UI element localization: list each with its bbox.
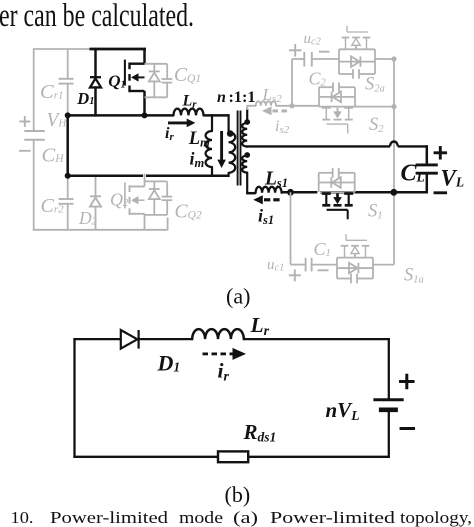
label nV_L (b)	[326, 398, 360, 423]
label C_r2	[41, 195, 65, 217]
transformer primary lead bottom	[228, 173, 230, 177]
wire right rail to C_L	[426, 145, 429, 165]
label C_1	[314, 239, 331, 259]
arrow i_s1 dashed	[253, 195, 279, 204]
wire D1 to L_r (b)	[137, 338, 192, 340]
label S_2	[369, 115, 384, 135]
snubber C_Q1 network	[145, 64, 173, 98]
label i_s1	[258, 206, 274, 228]
wire row2 from transformer	[246, 192, 256, 195]
svg-text:mode: mode	[179, 508, 223, 527]
label S_1a	[404, 266, 424, 286]
arrow i_m	[217, 131, 226, 168]
capacitor C_r1 lead top	[67, 49, 69, 79]
switch S1a mosfet	[341, 234, 370, 258]
label R_ds1 (b)	[243, 420, 277, 445]
label S_2a	[365, 75, 385, 95]
diode D1 cathode lead	[94, 48, 97, 77]
svg-text::1:1: :1:1	[229, 89, 256, 106]
wire bottom gray rail	[33, 229, 168, 231]
battery nV_L short plate	[379, 407, 398, 412]
figure caption line	[11, 508, 473, 527]
wire S1a to right rail	[373, 264, 394, 266]
capacitor C_r1 lead bottom	[67, 84, 69, 114]
V_H minus sign	[19, 150, 31, 152]
wire bottom left segment (b)	[73, 456, 218, 458]
inductor L_s2 connector	[247, 106, 256, 110]
wire bottom black (return to transformer)	[67, 175, 230, 178]
label i_r (a)	[165, 125, 174, 143]
capacitor u_c1 wire left	[291, 264, 306, 266]
transistor Q1	[125, 60, 145, 93]
label i_m	[190, 149, 205, 171]
switch S2a mosfet	[342, 26, 371, 50]
wire node row y115 (D1/Q1 to L_r)	[67, 114, 174, 117]
capacitor C_r2 lead top	[67, 177, 69, 199]
wire row2 to right	[282, 191, 427, 194]
switch S1a block	[337, 258, 373, 284]
switch S2a block	[339, 49, 375, 79]
u_c1 minus sign	[318, 269, 329, 271]
u_c2 minus sign	[319, 51, 330, 53]
label i_s2	[275, 118, 290, 136]
wire rail upturn to C_Q2 box corner	[167, 217, 169, 230]
node dot S2a right	[391, 56, 396, 61]
inductor L_s2	[256, 101, 276, 106]
diode D1 anode lead	[94, 86, 97, 116]
source V_H / capacitor C_H plates	[24, 131, 45, 140]
caption (b)	[225, 482, 251, 507]
wire L_r to corner (b)	[244, 338, 390, 340]
transformer secondary lead bottom	[246, 173, 248, 194]
label C_L	[401, 161, 425, 187]
capacitor u_c2 plates	[304, 52, 312, 67]
transformer primary polarity dot	[227, 130, 234, 137]
label C_Q1	[174, 65, 201, 86]
node dot row2 right rail	[390, 189, 397, 196]
transformer primary lead	[228, 114, 230, 132]
capacitor C_L	[416, 165, 438, 173]
switch S2 mosfet	[322, 108, 353, 134]
node junction dot Q1 source	[142, 112, 148, 118]
transistor Q2 source lead	[144, 214, 146, 230]
node dot L_s2 branch	[289, 103, 294, 108]
wire right rail lower (b)	[388, 410, 390, 458]
diode D1	[90, 77, 101, 87]
inductor L_r	[174, 109, 204, 116]
label i_r (b)	[218, 359, 230, 385]
wire left rail lower	[33, 140, 35, 230]
capacitor C_r2 lead bottom	[67, 204, 69, 230]
transistor Q1 source lead	[143, 91, 146, 115]
label C_r1	[40, 81, 63, 103]
switch S1 snubber box gray	[319, 168, 355, 192]
svg-text:n: n	[217, 89, 226, 106]
diode D2	[90, 196, 101, 206]
battery plus sign (b)	[399, 374, 415, 390]
wire L_r to transformer	[204, 114, 230, 117]
wire u_c1 branch riser	[290, 192, 292, 264]
transformer secondary s1 polarity dot	[244, 152, 250, 158]
svg-text:(b): (b)	[225, 482, 251, 507]
label D_2	[78, 208, 98, 228]
label Q_1	[108, 72, 125, 91]
diode D1 (b)	[121, 330, 139, 349]
wire right gray rail	[393, 59, 395, 265]
node dot S2 right	[391, 104, 396, 109]
label C_2	[309, 69, 327, 89]
label D_1	[76, 89, 94, 108]
label V_L	[441, 166, 465, 191]
node junction dot bottom-left	[65, 173, 71, 179]
inductor L_r (b)	[192, 329, 244, 339]
V_H plus sign	[19, 116, 30, 127]
transformer secondary winding s2	[242, 123, 247, 147]
wire right rail upper (b)	[388, 338, 390, 400]
diode D2 lead bottom	[95, 206, 97, 230]
label L_m	[188, 129, 210, 150]
arrow i_r dashed (b)	[203, 348, 247, 360]
wire top black (D1 cathode to Q1 drain)	[90, 48, 147, 51]
transformer primary winding	[229, 132, 236, 173]
label S_1	[368, 202, 383, 222]
inductor L_m lead bottom	[211, 167, 213, 177]
switch S2 block (C2)	[319, 82, 355, 106]
svg-text:er can be calculated.: er can be calculated.	[0, 0, 194, 34]
label L_r (b)	[250, 313, 270, 339]
top text fragment	[0, 0, 194, 34]
label L_r (a)	[182, 93, 198, 111]
label L_s2	[262, 85, 283, 105]
wire top left (b)	[73, 338, 121, 340]
wire loop left (b)	[73, 338, 75, 458]
battery minus sign (b)	[400, 427, 416, 430]
diode D2 lead top	[95, 177, 97, 196]
arrow i_s2 dashed	[262, 107, 287, 116]
label u_c2	[304, 31, 322, 48]
transformer secondary lead top black	[246, 109, 248, 124]
capacitor u_c1/C1 plates	[306, 258, 312, 272]
V_L minus sign	[434, 191, 448, 194]
wire crossing gap S1 box edge	[317, 190, 320, 194]
transistor Q2	[125, 182, 145, 215]
caption (a)	[226, 284, 250, 309]
wire left mid vertical	[66, 114, 69, 177]
capacitor u_c2 wire right	[312, 58, 339, 60]
transistor Q2 drain lead	[144, 177, 146, 187]
inductor L_s1	[256, 187, 282, 193]
inductor L_m	[206, 131, 212, 167]
svg-text:(a): (a)	[233, 508, 258, 527]
capacitor C1 wire right	[312, 264, 337, 266]
wire C_L to row2	[426, 173, 429, 193]
wire L_s2 to S2 block	[276, 105, 319, 107]
arrow i_r	[168, 119, 195, 128]
wire u_c2 branch riser	[291, 59, 293, 106]
label L_s1	[264, 169, 288, 191]
wire secondary tap row1	[246, 141, 427, 146]
u_c1 plus sign	[289, 269, 301, 281]
node junction dot left	[65, 112, 71, 118]
label D_1 (b)	[157, 351, 181, 376]
transformer secondary winding s1	[242, 156, 247, 173]
capacitor u_c2 wire left	[292, 58, 304, 60]
svg-text:10.: 10.	[11, 508, 34, 527]
transistor Q1 drain lead	[143, 48, 146, 64]
wire bottom right segment (b)	[248, 456, 390, 458]
V_L plus sign	[434, 146, 448, 160]
label C_Q2	[175, 202, 202, 223]
svg-text:Power-limited: Power-limited	[50, 508, 169, 527]
svg-text:(a): (a)	[226, 284, 250, 309]
svg-text:topology,: topology,	[400, 508, 472, 527]
wire top gray segment (V_H rail to D1 cathode)	[33, 48, 91, 50]
label V_H	[47, 110, 68, 131]
capacitor C_r1	[59, 79, 74, 84]
svg-text:Power-limited: Power-limited	[270, 508, 396, 527]
wire crossing gap Q2 drain	[143, 174, 146, 178]
node dot row2 left	[287, 189, 294, 196]
inductor L_m lead top	[211, 114, 213, 131]
transformer secondary s2 polarity dot	[244, 119, 250, 125]
wire left rail upper (V_H branch)	[33, 49, 35, 131]
switch S1 mosfet black	[322, 194, 353, 220]
label n:1:1	[217, 89, 256, 106]
label Q_2	[110, 190, 129, 210]
wire S2a to right rail	[375, 58, 394, 60]
capacitor C_r2	[59, 199, 74, 204]
wire S2 block to rail	[355, 106, 394, 108]
snubber C_Q2 network	[145, 181, 173, 215]
battery nV_L long plate	[373, 398, 403, 401]
u_c2 plus sign	[289, 44, 302, 57]
resistor R_ds1	[218, 451, 248, 462]
label C_H	[42, 145, 65, 167]
transformer core	[238, 111, 241, 186]
label u_c1	[267, 257, 284, 274]
